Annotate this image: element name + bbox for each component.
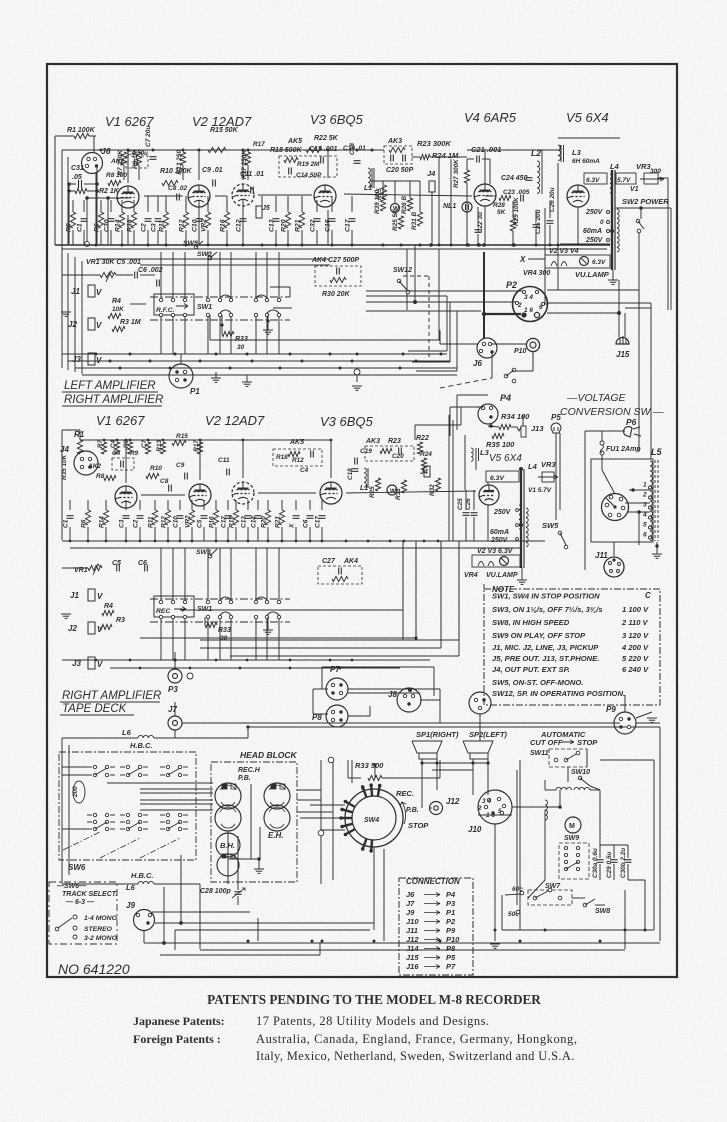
- switch SW6 contact: [166, 765, 169, 768]
- wire drop: [301, 196, 303, 208]
- wire: [382, 777, 440, 779]
- wire head: [140, 792, 213, 794]
- svg-text:VR4: VR4: [464, 572, 478, 579]
- junction: [331, 244, 334, 247]
- wire: [371, 168, 373, 188]
- svg-text:CONNECTION: CONNECTION: [406, 877, 460, 886]
- wire: [257, 500, 259, 510]
- wire bus: [82, 374, 457, 376]
- svg-text:V2 12AD7: V2 12AD7: [205, 413, 265, 428]
- wire: [200, 949, 625, 951]
- head gap: [222, 784, 227, 789]
- resistor R11: [163, 212, 168, 228]
- svg-text:E.H.: E.H.: [268, 831, 284, 840]
- SW1 arm arc: [256, 295, 267, 298]
- wire: [560, 243, 610, 245]
- svg-text:SW3, ON 1⅛/s, OFF 7½/s, 3¾/s: SW3, ON 1⅛/s, OFF 7½/s, 3¾/s: [492, 605, 603, 614]
- switch SW8: [583, 903, 587, 907]
- wire: [482, 158, 490, 160]
- svg-text:R19 2M: R19 2M: [297, 161, 320, 168]
- wire P7 top loop: [322, 666, 434, 668]
- svg-text:NL1: NL1: [443, 203, 456, 210]
- junction mid bus: [367, 540, 370, 543]
- svg-text:C20 50P: C20 50P: [386, 167, 414, 174]
- svg-text:R6: R6: [94, 223, 101, 232]
- svg-text:R16: R16: [220, 219, 227, 232]
- svg-text:1-4 MONO: 1-4 MONO: [84, 915, 118, 922]
- heater box V5: [584, 173, 607, 184]
- svg-text:1: 1: [643, 482, 647, 489]
- junction bottom: [624, 929, 627, 932]
- wire: [157, 200, 159, 212]
- wire head to C28: [227, 831, 229, 884]
- svg-text:R26 B: R26 B: [401, 196, 408, 214]
- svg-text:C21 .001: C21 .001: [471, 145, 501, 154]
- svg-text:REC: REC: [156, 608, 170, 615]
- RFC contact: [183, 298, 186, 301]
- svg-text:R2 1K: R2 1K: [99, 188, 120, 195]
- svg-text:C6: C6: [303, 519, 310, 528]
- svg-text:J15: J15: [616, 350, 630, 359]
- inductor L2: [537, 161, 540, 193]
- wire head right 1: [320, 760, 322, 884]
- svg-text:H.B.C.: H.B.C.: [130, 741, 153, 750]
- arrow stop: [562, 740, 574, 744]
- jack J1 mid: [88, 589, 95, 601]
- connector P4: [478, 404, 498, 424]
- svg-text:P3: P3: [446, 899, 456, 908]
- wire SW4 down: [373, 847, 375, 930]
- svg-text:L3: L3: [572, 148, 582, 157]
- svg-text:3 4: 3 4: [524, 294, 533, 301]
- svg-text:P4: P4: [446, 890, 456, 899]
- motor winding 2: [574, 787, 590, 790]
- wire: [133, 200, 135, 212]
- wire head2: [107, 782, 213, 784]
- wire bus mid2: [70, 547, 520, 549]
- terminal 50c: [516, 910, 520, 914]
- wire vertical drop: [458, 541, 460, 656]
- svg-text:C11 .01: C11 .01: [240, 171, 264, 178]
- resistor R33 500: [368, 775, 382, 780]
- svg-text:C31: C31: [71, 165, 84, 172]
- resistor R14 mid2: [103, 510, 108, 525]
- capacitor C7: [150, 158, 157, 160]
- capacitor C27 mid: [340, 568, 342, 575]
- VR1 arrow: [106, 271, 113, 282]
- svg-text:L1: L1: [360, 485, 368, 492]
- wire: [408, 350, 447, 352]
- connector P2: [513, 287, 548, 322]
- wire: [439, 760, 441, 778]
- wire head: [140, 799, 213, 801]
- wire: [419, 181, 421, 212]
- wire: [247, 500, 249, 510]
- resistor R3: [112, 326, 125, 331]
- wire: [327, 150, 329, 178]
- wire: [559, 145, 561, 150]
- SW1 mid contact: [254, 600, 257, 603]
- wire rail: [61, 249, 63, 368]
- switch SW6 arm: [168, 768, 180, 775]
- svg-text:J4: J4: [60, 445, 69, 454]
- VR3 arrow: [640, 177, 664, 181]
- wire: [185, 230, 187, 245]
- wire: [110, 200, 112, 212]
- capacitor C20a: [392, 155, 394, 162]
- capacitor C5: [136, 272, 138, 279]
- wire vertical J10 right: [519, 760, 521, 930]
- resistor R25 mid: [375, 478, 380, 491]
- head EH lower: [264, 805, 290, 831]
- RFC box: [154, 294, 194, 315]
- svg-text:5: 5: [643, 522, 647, 529]
- SW9 arm: [566, 862, 578, 869]
- capacitor C26: [547, 222, 554, 224]
- svg-text:SW4: SW4: [364, 817, 379, 824]
- resistor R5: [70, 212, 75, 228]
- svg-text:V: V: [97, 660, 103, 669]
- svg-text:AK3: AK3: [387, 138, 402, 145]
- resistor VR3: [644, 173, 658, 184]
- wire long2: [182, 722, 620, 724]
- wire: [242, 210, 244, 245]
- switch SW5: [558, 531, 562, 535]
- plug P6: [624, 427, 641, 437]
- svg-text:2 110 V: 2 110 V: [621, 618, 649, 627]
- wire: [321, 500, 323, 510]
- wire: [361, 785, 363, 790]
- capacitor C32: [314, 220, 321, 222]
- wire: [123, 165, 125, 180]
- wire: [301, 230, 303, 245]
- wire: [250, 784, 252, 859]
- wire head: [140, 809, 213, 811]
- heater rail box mid: [472, 555, 520, 567]
- REC contact: [159, 600, 162, 603]
- svg-text:R33: R33: [235, 336, 248, 343]
- wire drop SW1 mid: [219, 548, 221, 600]
- capacitor C17: [349, 220, 356, 222]
- wire diag to socket: [602, 470, 615, 494]
- wire corner a: [446, 296, 448, 351]
- junction: [301, 244, 304, 247]
- wire: [84, 183, 97, 185]
- wire: [370, 180, 420, 182]
- junction mid bus: [87, 540, 90, 543]
- junction mid bus: [389, 540, 392, 543]
- tube V4 6AR5: [474, 184, 496, 206]
- capacitor C5 mid2: [201, 517, 208, 519]
- capacitor C15 mid: [312, 451, 314, 458]
- svg-text:SW1, SW4 IN STOP POSITION: SW1, SW4 IN STOP POSITION: [492, 592, 600, 601]
- SW1 mid contact: [206, 600, 209, 603]
- svg-text:2: 2: [642, 492, 647, 499]
- junction: [287, 244, 290, 247]
- capacitor C12: [240, 220, 247, 222]
- wire drop SW1: [255, 252, 257, 298]
- heater rail box: [545, 255, 610, 268]
- tube V1 mid: [115, 486, 137, 508]
- wire tap2: [625, 502, 650, 504]
- junction top rail: [242, 149, 245, 152]
- dashed SW12 v: [428, 276, 430, 360]
- capacitor C20 mid: [400, 448, 402, 455]
- wire: [160, 954, 320, 956]
- svg-text:C7 20u: C7 20u: [145, 126, 152, 147]
- svg-text:4: 4: [642, 512, 647, 519]
- wire: [488, 426, 499, 427]
- resistor C7 mid: [145, 442, 150, 454]
- svg-text:C20: C20: [392, 453, 404, 460]
- svg-text:250V: 250V: [585, 237, 604, 244]
- wire: [167, 500, 169, 510]
- svg-text:REC.H: REC.H: [238, 767, 261, 774]
- connector J8: [397, 688, 421, 712]
- inductor L6: [138, 735, 154, 738]
- wire: [209, 315, 211, 340]
- SW1 contact r1: [265, 298, 268, 301]
- svg-text:C27: C27: [322, 558, 336, 565]
- wire: [545, 789, 556, 791]
- REC contact: [183, 600, 186, 603]
- svg-text:P8: P8: [446, 944, 456, 953]
- wire BH to ground: [228, 858, 259, 860]
- resistor R26: [407, 198, 412, 211]
- resistor R30: [330, 277, 346, 282]
- wire bus: [110, 667, 400, 669]
- resistor R35: [492, 433, 504, 438]
- wire: [275, 230, 277, 245]
- resistor R21: [299, 212, 304, 228]
- wire: [541, 150, 543, 161]
- dashed SW12 h: [403, 275, 429, 277]
- wire: [121, 200, 123, 212]
- svg-text:R28: R28: [493, 202, 505, 209]
- capacitor C1: [81, 220, 88, 222]
- switch SW9 box: [559, 843, 589, 879]
- svg-text:AK5: AK5: [289, 439, 304, 446]
- junction mid bus: [167, 540, 170, 543]
- wire: [69, 190, 75, 192]
- resistor R40: [389, 147, 405, 152]
- junction bottom: [439, 940, 442, 943]
- wire: [456, 395, 458, 430]
- wire: [415, 424, 461, 426]
- svg-text:AK2: AK2: [87, 463, 101, 470]
- junction bus5: [139, 667, 142, 670]
- svg-text:R5: R5: [66, 223, 73, 232]
- svg-text:V4 6AR5: V4 6AR5: [464, 110, 517, 125]
- connector J6: [82, 153, 103, 174]
- VR1 mid arrow: [93, 564, 100, 575]
- junction bus5: [289, 667, 292, 670]
- wire: [155, 922, 374, 924]
- wire: [313, 688, 326, 690]
- head EH upper: [264, 783, 290, 809]
- junction: [261, 244, 264, 247]
- choke L3 mid: [471, 448, 473, 461]
- wire tap4: [627, 511, 650, 513]
- wire V kink: [517, 427, 521, 431]
- wire drop: [83, 204, 85, 208]
- capacitor X mid2: [293, 517, 300, 519]
- transformer mid winding: [526, 508, 528, 512]
- resistor R6 mid2: [85, 510, 90, 525]
- svg-text:V1: V1: [630, 186, 639, 193]
- capacitor C27: [338, 268, 340, 275]
- wire: [89, 135, 96, 137]
- wire: [348, 692, 420, 694]
- svg-text:5.7V: 5.7V: [617, 177, 631, 184]
- wire: [287, 200, 289, 212]
- connector J14: [469, 692, 491, 714]
- wire: [174, 730, 176, 738]
- wire: [54, 136, 56, 245]
- wire vertical drop: [415, 541, 417, 638]
- wire: [347, 760, 349, 778]
- resistor R33b: [222, 331, 234, 336]
- capacitor C6 mid: [146, 565, 148, 572]
- wire: [577, 207, 579, 244]
- wire: [439, 689, 441, 723]
- wire: [144, 942, 660, 944]
- neon lamp NL1: [462, 202, 472, 212]
- wire: [477, 207, 479, 227]
- resistor R15: [208, 147, 226, 152]
- svg-text:V5 6X4: V5 6X4: [566, 110, 609, 125]
- wire: [62, 766, 87, 768]
- svg-text:R11: R11: [148, 516, 155, 528]
- SW1 contact r1: [218, 298, 221, 301]
- svg-text:P7: P7: [446, 962, 456, 971]
- CONNECTION table box: [399, 878, 473, 975]
- svg-text:R24 1M: R24 1M: [432, 151, 459, 160]
- wire vertical drop: [458, 541, 460, 640]
- wire: [154, 527, 156, 541]
- svg-text:L2: L2: [531, 148, 541, 158]
- network AK2 mid box: [112, 458, 134, 470]
- ground P9: [647, 717, 657, 719]
- SW1 mid contact: [277, 600, 280, 603]
- svg-text:J9: J9: [406, 908, 415, 917]
- wire: [95, 172, 97, 245]
- svg-text:J6: J6: [406, 890, 415, 899]
- svg-text:PATENTS PENDING TO THE MODEL M: PATENTS PENDING TO THE MODEL M-8 RECORDE…: [207, 992, 541, 1007]
- wire: [215, 500, 217, 510]
- junction bus2: [199, 360, 202, 363]
- head BH: [216, 833, 240, 857]
- capacitor C2: [145, 220, 152, 222]
- wire: [175, 929, 370, 931]
- resistor R27: [464, 170, 469, 183]
- wire: [154, 500, 156, 510]
- resistor R31 mid: [401, 480, 406, 493]
- svg-text:R18 500K: R18 500K: [270, 147, 302, 154]
- svg-text:R10: R10: [150, 465, 162, 472]
- switch SW3: [208, 256, 212, 260]
- wire head: [140, 788, 213, 790]
- junction: [450, 244, 453, 247]
- svg-text:SP1(RIGHT): SP1(RIGHT): [416, 730, 459, 739]
- head coil detail: [269, 807, 285, 828]
- junction bus4: [215, 659, 218, 662]
- svg-text:R35 10K: R35 10K: [61, 454, 68, 480]
- wire: [346, 491, 476, 493]
- svg-text:C10: C10: [192, 219, 199, 232]
- transformer L5 winding: [650, 461, 652, 466]
- head gap EH: [271, 784, 276, 789]
- SW6 TRACK SELECT box: [49, 882, 117, 944]
- wire: [198, 212, 200, 245]
- junction bottom: [311, 940, 314, 943]
- svg-text:C10: C10: [173, 516, 180, 528]
- wire: [69, 500, 71, 510]
- wire: [549, 200, 551, 218]
- ground P1 b: [242, 381, 252, 383]
- junction: [549, 244, 552, 247]
- wire: [485, 195, 496, 197]
- svg-text:R34 100: R34 100: [501, 412, 530, 421]
- wire: [321, 527, 323, 541]
- svg-text:R3 1M: R3 1M: [120, 319, 141, 326]
- wire: [72, 230, 74, 245]
- svg-text:J15: J15: [406, 953, 419, 962]
- connector P7: [326, 678, 348, 700]
- REC contact: [171, 600, 174, 603]
- SW1 mid arm arc: [220, 612, 231, 615]
- ground: [608, 279, 618, 281]
- wire: [394, 181, 396, 203]
- wire: [670, 208, 672, 310]
- wire: [558, 137, 620, 139]
- wire left rail L5: [584, 431, 586, 570]
- heater box mid: [486, 471, 519, 482]
- svg-text:—VOLTAGE: —VOLTAGE: [566, 392, 627, 404]
- svg-text:J11: J11: [406, 926, 418, 935]
- wire: [450, 159, 452, 244]
- wire: [545, 303, 548, 305]
- svg-text:C30a 0.6u: C30a 0.6u: [592, 848, 599, 878]
- junction bus5: [189, 667, 192, 670]
- jack J4 mid: [424, 466, 430, 477]
- junction: [512, 244, 515, 247]
- wire EH down: [259, 827, 261, 859]
- SW4 arc arrow: [400, 802, 406, 824]
- capacitor C17 mid2: [319, 517, 326, 519]
- svg-text:R35 100: R35 100: [486, 440, 515, 449]
- svg-text:VR2: VR2: [185, 515, 192, 528]
- wire: [544, 780, 546, 790]
- border frame: [47, 64, 677, 977]
- wire: [412, 156, 420, 158]
- wire: [522, 415, 524, 426]
- wire: [351, 230, 353, 245]
- svg-text:SW10: SW10: [571, 769, 590, 776]
- capacitor C31: [81, 180, 83, 188]
- wire: [421, 790, 423, 808]
- wire: [143, 931, 145, 943]
- svg-text:AK5: AK5: [287, 138, 302, 145]
- svg-text:TAPE DECK: TAPE DECK: [62, 703, 128, 715]
- wire drop SW1 mid: [278, 548, 280, 600]
- head gap BH: [222, 854, 226, 858]
- wire drop SW1: [278, 252, 280, 298]
- svg-text:Australia, Canada, England, Fr: Australia, Canada, England, France, Germ…: [256, 1032, 578, 1046]
- wire: [319, 943, 321, 955]
- inductor L1 mid: [364, 468, 366, 487]
- wire down to P6: [638, 290, 640, 452]
